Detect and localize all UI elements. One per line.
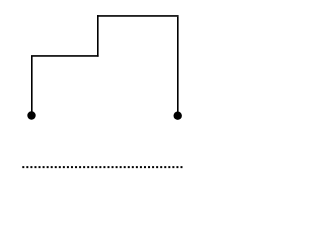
dotted separator line xyxy=(22,166,182,168)
wire: lower horizontal step segment xyxy=(31,55,99,57)
wire: top horizontal segment xyxy=(97,15,179,17)
junction dot: right terminal xyxy=(174,112,182,120)
wire: left vertical segment xyxy=(31,56,33,114)
wire: middle vertical segment xyxy=(97,15,99,57)
wire: right vertical segment xyxy=(177,17,179,114)
junction dot: left terminal xyxy=(27,111,35,119)
